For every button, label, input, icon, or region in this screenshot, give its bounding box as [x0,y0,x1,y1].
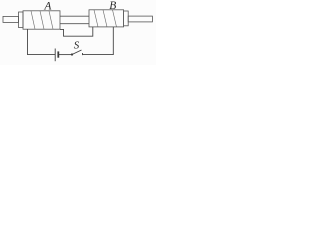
coil B body [89,10,124,27]
wire: battery to switch segment [59,54,72,56]
center connecting rod [60,16,89,24]
coil A left end cap [19,12,24,28]
battery cell: long plate [54,49,56,62]
wire: middle link from coil A inner end to coil B inner end [60,27,93,36]
wire: left vertical from coil A down to bottom-left corner and battery [28,29,56,54]
background [0,0,156,65]
coil B hatch 2 [103,10,107,27]
coil B hatch 1 [94,10,98,27]
coil B right end cap [124,11,129,26]
battery cell: short thick plate [57,51,59,57]
coil B hatch 3 [113,10,117,27]
svg-text:A: A [43,0,52,12]
wire: right vertical from coil B down to bottom-right corner [83,27,114,55]
switch pivot dot [71,53,73,55]
svg-text:S: S [74,39,80,51]
coil A hatch 3 [49,11,53,29]
coil A hatch 1 [31,11,35,29]
right shaft rod [128,16,152,22]
coil A hatch 2 [40,11,44,29]
switch lever [72,50,82,55]
switch fixed contact tick [82,53,84,55]
left shaft rod [3,16,19,22]
coil A body [23,11,60,29]
svg-text:B: B [109,0,116,12]
